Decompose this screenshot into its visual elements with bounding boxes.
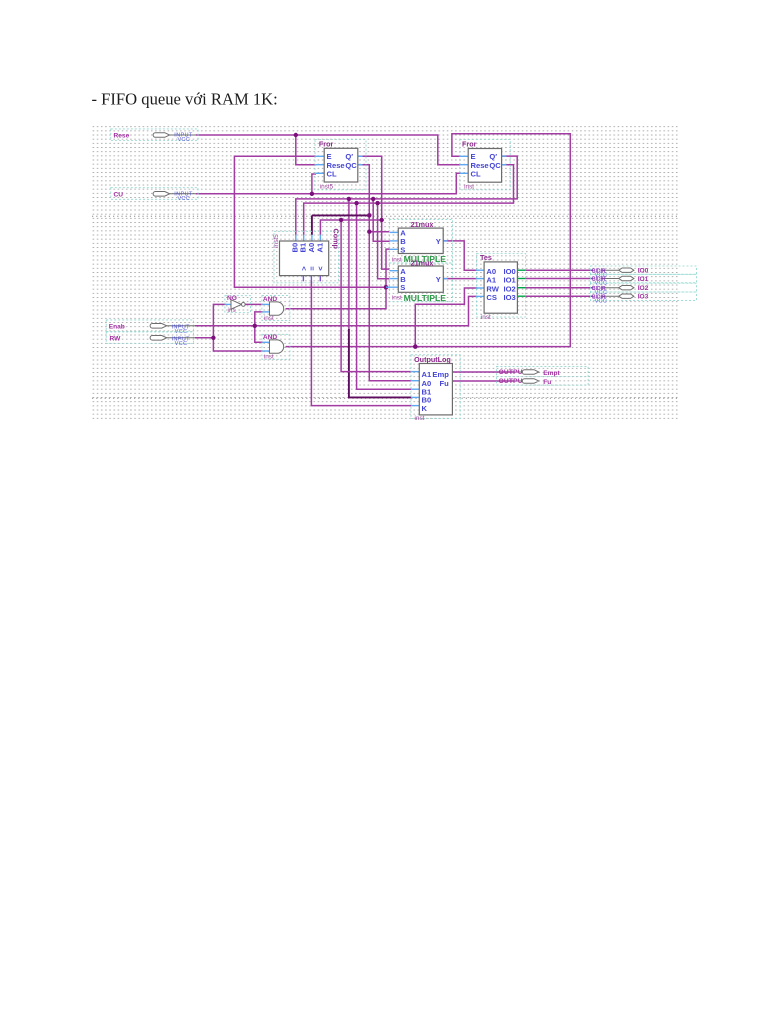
svg-text:Rese: Rese: [114, 133, 130, 140]
wire NOT output: [245, 303, 262, 305]
AND gate 2: [262, 334, 290, 360]
svg-text:ins: ins: [228, 307, 236, 314]
svg-text:Y: Y: [436, 275, 441, 284]
output pin Fu: [499, 378, 552, 386]
wire net READ (AND1 output): [234, 156, 389, 308]
svg-text:=: =: [308, 266, 317, 271]
svg-text:IO1: IO1: [504, 276, 517, 285]
svg-text:Rese: Rese: [471, 161, 489, 170]
svg-text:VCC: VCC: [595, 298, 608, 304]
svg-text:21mux: 21mux: [411, 259, 434, 268]
darker grid row A: [92, 215, 679, 217]
wire net QC2 (FF2 QC to comparator B1 / mux2 B / outputlogic B1): [304, 165, 514, 390]
svg-text:CU: CU: [114, 191, 124, 198]
svg-text:MULTIPLE: MULTIPLE: [404, 293, 447, 303]
wire net CLK: [196, 173, 460, 194]
svg-text:RW: RW: [110, 336, 122, 343]
bidir pin IO1: [591, 274, 697, 286]
svg-text:S: S: [400, 245, 405, 254]
wires Tes IO0-IO3 to bidir pins: [526, 270, 593, 296]
svg-text:OUTPU: OUTPU: [499, 378, 523, 385]
wire dark segment A0: [312, 215, 411, 397]
AND gate 1: [262, 296, 290, 322]
svg-text:S: S: [400, 283, 405, 292]
svg-text:Tes: Tes: [480, 253, 492, 262]
svg-text:Empt: Empt: [543, 370, 560, 377]
svg-text:Fror: Fror: [462, 140, 477, 149]
input pin Enab: [106, 320, 195, 335]
output pin Empt: [496, 367, 588, 386]
svg-text:IO3: IO3: [638, 294, 649, 301]
input pin Rese: [111, 129, 198, 143]
svg-text:Emp: Emp: [432, 370, 449, 379]
svg-text:NO: NO: [227, 295, 237, 302]
comparator block Comp: [273, 229, 341, 283]
wire net QC1 (FF1 QC, dark bus to comparator A0): [358, 165, 411, 381]
bidir pin IO0: [591, 266, 697, 278]
svg-text:Enab: Enab: [109, 324, 125, 331]
svg-text:CL: CL: [327, 170, 337, 179]
darker grid row B: [92, 397, 679, 399]
wire net Q1 (FF1 Q to comparator A1 / mux2 A / outputlogic A1): [320, 156, 411, 371]
bidir pin IO3: [591, 292, 697, 304]
svg-text:QC: QC: [345, 161, 357, 170]
svg-text:>: >: [316, 266, 325, 271]
wires OutputLogic to output pins: [452, 372, 514, 381]
svg-text:Inst5: Inst5: [273, 234, 280, 248]
svg-text:CL: CL: [471, 170, 481, 179]
svg-text:VCC: VCC: [175, 341, 188, 347]
wire net ENABLE/CS: [195, 296, 477, 342]
input pin RW: [106, 332, 195, 347]
svg-text:K: K: [422, 404, 428, 413]
svg-text:OUTPU: OUTPU: [499, 369, 523, 376]
svg-text:QC: QC: [489, 161, 501, 170]
wire net WRITE (AND2 output): [286, 134, 571, 347]
svg-text:inst: inst: [392, 295, 402, 302]
svg-text:Rese: Rese: [327, 161, 345, 170]
wire net comparator equal to outputlogic K: [311, 281, 411, 406]
bidir pin IO2: [591, 283, 697, 296]
svg-text:IO3: IO3: [504, 293, 516, 302]
wire mux2 Y to Tes A1: [443, 278, 477, 280]
svg-text:Comp: Comp: [332, 229, 341, 250]
RAM block Tes: [476, 253, 526, 321]
schematic grid background: [92, 125, 680, 421]
svg-text:IO1: IO1: [638, 276, 649, 283]
svg-text:Fu: Fu: [440, 379, 450, 388]
wire net RW input: [195, 304, 263, 351]
NOT gate: [225, 295, 251, 314]
multiplexer block 21mux 1: [389, 220, 452, 265]
junction dots: [211, 133, 417, 349]
svg-text:Y: Y: [436, 237, 441, 246]
wire net RESET: [196, 135, 460, 165]
svg-text:IO0: IO0: [504, 267, 516, 276]
svg-text:AND: AND: [263, 296, 278, 303]
svg-text:CS: CS: [486, 293, 497, 302]
svg-text:inst: inst: [464, 183, 474, 190]
svg-text:AND: AND: [263, 334, 278, 341]
svg-text:OutputLog: OutputLog: [414, 355, 451, 364]
svg-text:<: <: [300, 266, 309, 271]
svg-text:VCC: VCC: [178, 137, 191, 143]
svg-text:VCC: VCC: [175, 329, 188, 335]
svg-text:VCC: VCC: [178, 196, 191, 202]
svg-text:Fu: Fu: [543, 379, 551, 386]
svg-text:inst: inst: [392, 256, 402, 263]
wire net Q2 (FF2 Q to comparator B0 / mux1 B / outputlogic B0): [296, 156, 517, 330]
flip-flop block Fror2: [460, 140, 511, 191]
svg-text:Fror: Fror: [319, 140, 334, 149]
svg-text:- FIFO queue với RAM 1K:: - FIFO queue với RAM 1K:: [92, 90, 278, 109]
svg-text:inst: inst: [481, 314, 491, 321]
svg-text:inst5: inst5: [320, 184, 334, 191]
svg-text:IO2: IO2: [638, 285, 649, 292]
svg-text:inst: inst: [415, 415, 425, 422]
svg-text:A1: A1: [486, 276, 496, 285]
svg-text:IO0: IO0: [638, 268, 649, 275]
multiplexer block 21mux 2: [386, 259, 453, 303]
block OutputLogic: [411, 355, 460, 422]
input pin CU (clk): [111, 188, 198, 202]
wire mux1 Y to Tes A0: [443, 241, 477, 270]
svg-text:A1: A1: [422, 370, 432, 379]
svg-text:inst: inst: [264, 353, 274, 360]
svg-text:A0: A0: [486, 267, 496, 276]
svg-text:21mux: 21mux: [411, 220, 434, 229]
flip-flop block Fror1: [315, 140, 366, 191]
svg-text:A1: A1: [315, 242, 324, 252]
svg-text:inst: inst: [264, 315, 274, 322]
